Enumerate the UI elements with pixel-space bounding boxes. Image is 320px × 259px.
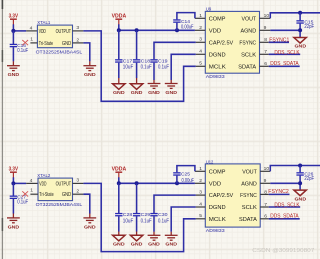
capacitor C19 [150, 58, 169, 70]
wire SDATA (bottom) [269, 218, 300, 220]
svg-text:SCLK: SCLK [242, 205, 257, 211]
svg-text:OUTPUT: OUTPUT [56, 29, 72, 35]
junction VDDA/C17 (top) [117, 28, 121, 32]
svg-text:OT322525MJBA4SL: OT322525MJBA4SL [36, 49, 83, 55]
svg-text:10: 10 [264, 166, 270, 172]
wire U12 AGND to C26 node [270, 182, 300, 184]
no-ERC marker on Tri-State (top) [22, 40, 28, 45]
svg-text:Tri-State: Tri-State [39, 41, 53, 47]
wire SCLK (top) [269, 53, 301, 55]
ground below C18 [130, 78, 142, 96]
svg-text:22pF: 22pF [304, 24, 314, 30]
svg-text:CAP/2.5V: CAP/2.5V [209, 40, 234, 46]
svg-text:DDS_SDATA: DDS_SDATA [270, 213, 299, 219]
junction C18 (top) [135, 28, 139, 32]
junction AGND/C15 (top) [298, 28, 302, 32]
pin 4 stub XTAL1 VDD [26, 25, 37, 31]
pin 3 stub XTAL1 OUTPUT [73, 25, 84, 31]
svg-text:22pF: 22pF [304, 176, 314, 182]
svg-text:0.1uF: 0.1uF [17, 48, 28, 54]
svg-text:AD9833: AD9833 [206, 74, 225, 80]
svg-text:DGND: DGND [209, 52, 226, 58]
wire node to XTAL2 VDD [13, 182, 26, 184]
pin 6 stub U9 SDATA [260, 61, 269, 67]
oscillator XTAL2 [36, 173, 83, 208]
ground below XTAL1 [83, 61, 96, 78]
junction C15 top [298, 11, 302, 15]
svg-text:1: 1 [30, 36, 33, 42]
svg-text:MCLK: MCLK [209, 217, 226, 223]
svg-text:1: 1 [199, 13, 202, 19]
svg-text:5: 5 [199, 61, 202, 67]
ground below C30 [148, 232, 161, 248]
svg-text:GND: GND [84, 72, 96, 78]
svg-text:5: 5 [199, 213, 202, 219]
no-ERC marker on Tri-State (bottom) [22, 191, 28, 196]
pin 5 stub U9 MCLK [196, 61, 206, 67]
wire XTAL1 GND pin to ground [83, 43, 89, 62]
pin 8 stub U9 FSYNC [260, 37, 269, 43]
ground below C28 [113, 232, 125, 248]
pin 4 stub U9 DGND [196, 49, 206, 55]
svg-text:Tri-State: Tri-State [39, 192, 53, 198]
svg-text:GND: GND [148, 90, 160, 96]
wire U12 VOUT to edge (bottom) [270, 166, 320, 172]
pin 7 stub U12 SCLK [260, 202, 269, 208]
svg-text:C28: C28 [123, 212, 133, 218]
ground below C17 [113, 78, 125, 96]
pin 2 stub U12 VDD [195, 178, 205, 184]
wire C19 to ground [153, 63, 155, 80]
svg-text:10: 10 [264, 13, 270, 19]
svg-text:OT322525MJBA4SL: OT322525MJBA4SL [36, 202, 83, 208]
ground below C26 [294, 190, 307, 202]
svg-text:DDS_SDATA: DDS_SDATA [270, 61, 299, 67]
svg-text:10uF: 10uF [123, 65, 134, 71]
wire node to XTAL1 VDD [13, 30, 26, 32]
svg-text:3: 3 [199, 37, 202, 43]
svg-text:GND: GND [113, 242, 125, 248]
wire node down to C27 [12, 183, 14, 195]
ground below C16 [7, 61, 20, 78]
svg-text:SDATA: SDATA [238, 64, 256, 70]
svg-text:0.1uF: 0.1uF [141, 218, 152, 224]
wire U9 COMP to C14 [177, 13, 195, 20]
svg-text:VDD: VDD [209, 181, 221, 187]
pin 2 stub XTAL2 GND [73, 189, 84, 195]
wire C25 to rail [176, 176, 178, 184]
svg-text:0.1uF: 0.1uF [17, 200, 28, 206]
svg-text:SDATA: SDATA [239, 217, 257, 223]
svg-text:2: 2 [199, 25, 202, 31]
svg-text:GND: GND [84, 224, 96, 230]
svg-text:C17: C17 [123, 58, 133, 64]
svg-text:2: 2 [76, 37, 79, 43]
pin 3 stub U9 CAP/2.5V [196, 37, 206, 43]
svg-text:GND: GND [295, 196, 307, 202]
wire FSYNC (bottom) [269, 193, 290, 195]
oscillator XTAL1 [36, 20, 83, 56]
svg-text:AGND: AGND [241, 28, 257, 34]
pin 3 stub XTAL2 OUTPUT [73, 178, 84, 184]
pin 8 stub U12 FSYNC [260, 189, 269, 195]
svg-text:GND: GND [165, 242, 177, 248]
wire to C26 [299, 166, 301, 173]
svg-text:3: 3 [76, 25, 79, 31]
wire rail to C29 [136, 183, 138, 213]
svg-text:DDS_SCLK: DDS_SCLK [274, 203, 300, 209]
capacitor C18 [133, 58, 152, 70]
capacitor C26 [296, 172, 314, 183]
wire rail to C17 [118, 30, 120, 59]
wire SCLK (bottom) [269, 206, 301, 208]
wire rail to C28 [118, 183, 120, 213]
wire U12 CAP/2.5V to C30 [154, 195, 196, 213]
svg-text:1: 1 [30, 188, 33, 194]
pin 9 stub U9 AGND [260, 25, 271, 31]
wire C15 to AGND node [299, 24, 301, 38]
svg-text:7: 7 [264, 202, 267, 208]
svg-text:9: 9 [264, 25, 267, 31]
svg-text:GND: GND [62, 41, 71, 47]
capacitor C17 [115, 58, 133, 70]
junction AGND/C26 (bottom) [298, 181, 302, 185]
ground below XTAL2 [83, 214, 96, 231]
svg-text:6: 6 [264, 214, 267, 220]
pin 10 stub U9 VOUT [260, 13, 271, 19]
svg-text:FSYNC2: FSYNC2 [268, 189, 289, 195]
wire U9 DGND to ground [171, 54, 196, 80]
svg-text:GND: GND [8, 72, 20, 78]
capacitor C27 [10, 195, 29, 206]
pin 1 stub XTAL2 Tri-State [30, 188, 38, 195]
capacitor C14 [173, 19, 193, 30]
svg-text:GND: GND [131, 90, 143, 96]
wire C14 to rail [176, 23, 178, 31]
svg-text:8: 8 [264, 189, 267, 195]
svg-text:VDD: VDD [209, 28, 221, 34]
pin 7 stub U9 SCLK [260, 49, 269, 55]
svg-text:C18: C18 [141, 58, 151, 64]
wire 3.3V to node (top) [12, 24, 14, 31]
svg-text:AD9833: AD9833 [206, 228, 225, 234]
svg-text:GND: GND [62, 192, 71, 198]
capacitor C15 [296, 20, 314, 30]
ground below C27 [7, 214, 20, 231]
svg-text:VOUT: VOUT [242, 16, 257, 22]
svg-text:2: 2 [199, 178, 202, 184]
svg-text:1: 1 [199, 166, 202, 172]
svg-text:C29: C29 [141, 212, 151, 218]
svg-text:0.1uF: 0.1uF [141, 65, 152, 71]
ground below C15 [294, 38, 307, 50]
junction C26 top [298, 164, 302, 168]
svg-text:6: 6 [264, 61, 267, 67]
wire rail to C18 [136, 30, 138, 59]
svg-text:4: 4 [199, 201, 202, 207]
capacitor C29 [133, 212, 152, 224]
svg-text:DGND: DGND [209, 205, 226, 211]
svg-text:SCLK: SCLK [241, 52, 256, 58]
svg-text:0.00uF: 0.00uF [181, 24, 194, 30]
svg-text:GND: GND [295, 44, 307, 50]
svg-text:3: 3 [199, 190, 202, 196]
ground below C29 [130, 232, 142, 248]
power port VDDA (bottom) [112, 166, 127, 177]
wire U9 AGND to C15 node [270, 29, 300, 31]
svg-text:2: 2 [76, 189, 79, 195]
junction VDDA/C28 (bottom) [117, 181, 121, 185]
wire U12 COMP to C25 [177, 166, 195, 173]
pin 1 stub U12 COMP [195, 166, 205, 172]
svg-text:DDS_SCLK: DDS_SCLK [274, 50, 300, 56]
wire VDDA rail (bottom) [119, 182, 195, 184]
pin 1 stub U9 COMP [195, 13, 205, 19]
svg-text:CAP/2.5V: CAP/2.5V [209, 193, 234, 199]
pin 1 stub XTAL1 Tri-State [30, 36, 37, 43]
ground below C19 [148, 80, 161, 96]
svg-text:9: 9 [264, 178, 267, 184]
wire VDDA rail (top) [119, 29, 195, 31]
junction C29 (bottom) [135, 181, 139, 185]
pin 5 stub U12 MCLK [196, 213, 206, 219]
svg-text:0.1uF: 0.1uF [158, 65, 169, 71]
svg-text:8: 8 [264, 37, 267, 43]
svg-text:VOUT: VOUT [242, 169, 257, 175]
wire node down to C16 [12, 31, 14, 44]
capacitor C30 [150, 212, 169, 224]
wire C16 to ground [12, 47, 14, 61]
wire C26 to AGND node [299, 176, 301, 191]
svg-text:3: 3 [76, 178, 79, 184]
ground below DGND (top) [165, 80, 178, 96]
svg-text:4: 4 [199, 49, 202, 55]
svg-text:GND: GND [113, 90, 125, 96]
svg-text:OUTPUT: OUTPUT [56, 181, 72, 187]
wire to C15 [299, 13, 301, 20]
svg-text:C30: C30 [158, 212, 168, 218]
svg-text:FSYNC1: FSYNC1 [269, 37, 289, 43]
wire SDATA (top) [269, 65, 300, 67]
svg-text:FSYNC: FSYNC [239, 40, 256, 46]
wire C17 to ground [118, 63, 120, 78]
wire XTAL1 OUTPUT to U9 MCLK [83, 31, 195, 101]
svg-text:7: 7 [264, 49, 267, 55]
svg-text:COMP: COMP [209, 16, 226, 22]
svg-text:C25: C25 [181, 171, 190, 177]
svg-text:10uF: 10uF [123, 218, 134, 224]
svg-text:GND: GND [148, 242, 160, 248]
wire FSYNC (top) [269, 41, 289, 43]
svg-text:CSDN @3099190807: CSDN @3099190807 [252, 248, 314, 254]
pin 2 stub U9 VDD [195, 25, 205, 31]
capacitor C16 [10, 43, 29, 54]
power port 3.3V (top) [9, 13, 19, 24]
wire XTAL2 GND pin to ground [83, 194, 89, 213]
svg-text:MCLK: MCLK [209, 64, 226, 70]
wire C27 to ground [12, 199, 14, 214]
svg-text:4: 4 [30, 25, 33, 31]
pin 10 stub U12 VOUT [260, 166, 270, 172]
power port 3.3V (bottom) [9, 166, 19, 177]
pin 6 stub U12 SDATA [260, 214, 269, 220]
svg-text:GND: GND [131, 242, 143, 248]
wire U9 CAP/2.5V to C19 [154, 42, 196, 59]
wire XTAL2 OUTPUT to U12 MCLK [83, 183, 195, 251]
capacitor C25 [173, 171, 194, 184]
svg-text:AGND: AGND [241, 181, 257, 187]
svg-text:GND: GND [8, 224, 20, 230]
junction 3.3V node (top) [11, 29, 15, 33]
pin 9 stub U12 AGND [260, 178, 270, 184]
wire C30 to ground [153, 216, 155, 231]
wire VDDA to rail (bottom) [118, 177, 120, 183]
svg-text:COMP: COMP [209, 169, 226, 175]
svg-text:4: 4 [30, 178, 33, 184]
pin 3 stub U12 CAP/2.5V [196, 190, 206, 196]
pin 2 stub XTAL1 GND [73, 37, 84, 43]
wire C28 to ground [118, 216, 120, 231]
pin 4 stub U12 DGND [196, 201, 206, 207]
wire 3.3V to node (bottom) [12, 177, 14, 183]
ground below DGND (bottom) [165, 232, 178, 248]
junction 3.3V node (bottom) [11, 181, 15, 185]
wire VDDA to rail (top) [118, 24, 120, 30]
wire C18 to ground [136, 63, 138, 78]
power port VDDA (top) [112, 13, 127, 24]
svg-text:VDD: VDD [39, 181, 46, 187]
junction C14 (top) [175, 28, 179, 32]
capacitor C28 [115, 212, 133, 224]
op-amp U12 AD9833 [205, 159, 260, 234]
svg-text:0.1uF: 0.1uF [158, 218, 169, 224]
wire U9 VOUT to edge (top) [270, 13, 320, 18]
svg-text:GND: GND [165, 90, 177, 96]
op-amp U9 AD9833 [205, 7, 259, 80]
wire U12 DGND to ground [171, 207, 196, 232]
svg-text:VDD: VDD [39, 29, 46, 35]
svg-text:0.00uF: 0.00uF [182, 178, 195, 184]
wire C29 to ground [136, 216, 138, 231]
svg-text:C19: C19 [158, 58, 168, 64]
pin 4 stub XTAL2 VDD [26, 178, 38, 184]
junction C25 (bottom) [175, 181, 179, 185]
svg-text:FSYNC: FSYNC [240, 193, 257, 199]
